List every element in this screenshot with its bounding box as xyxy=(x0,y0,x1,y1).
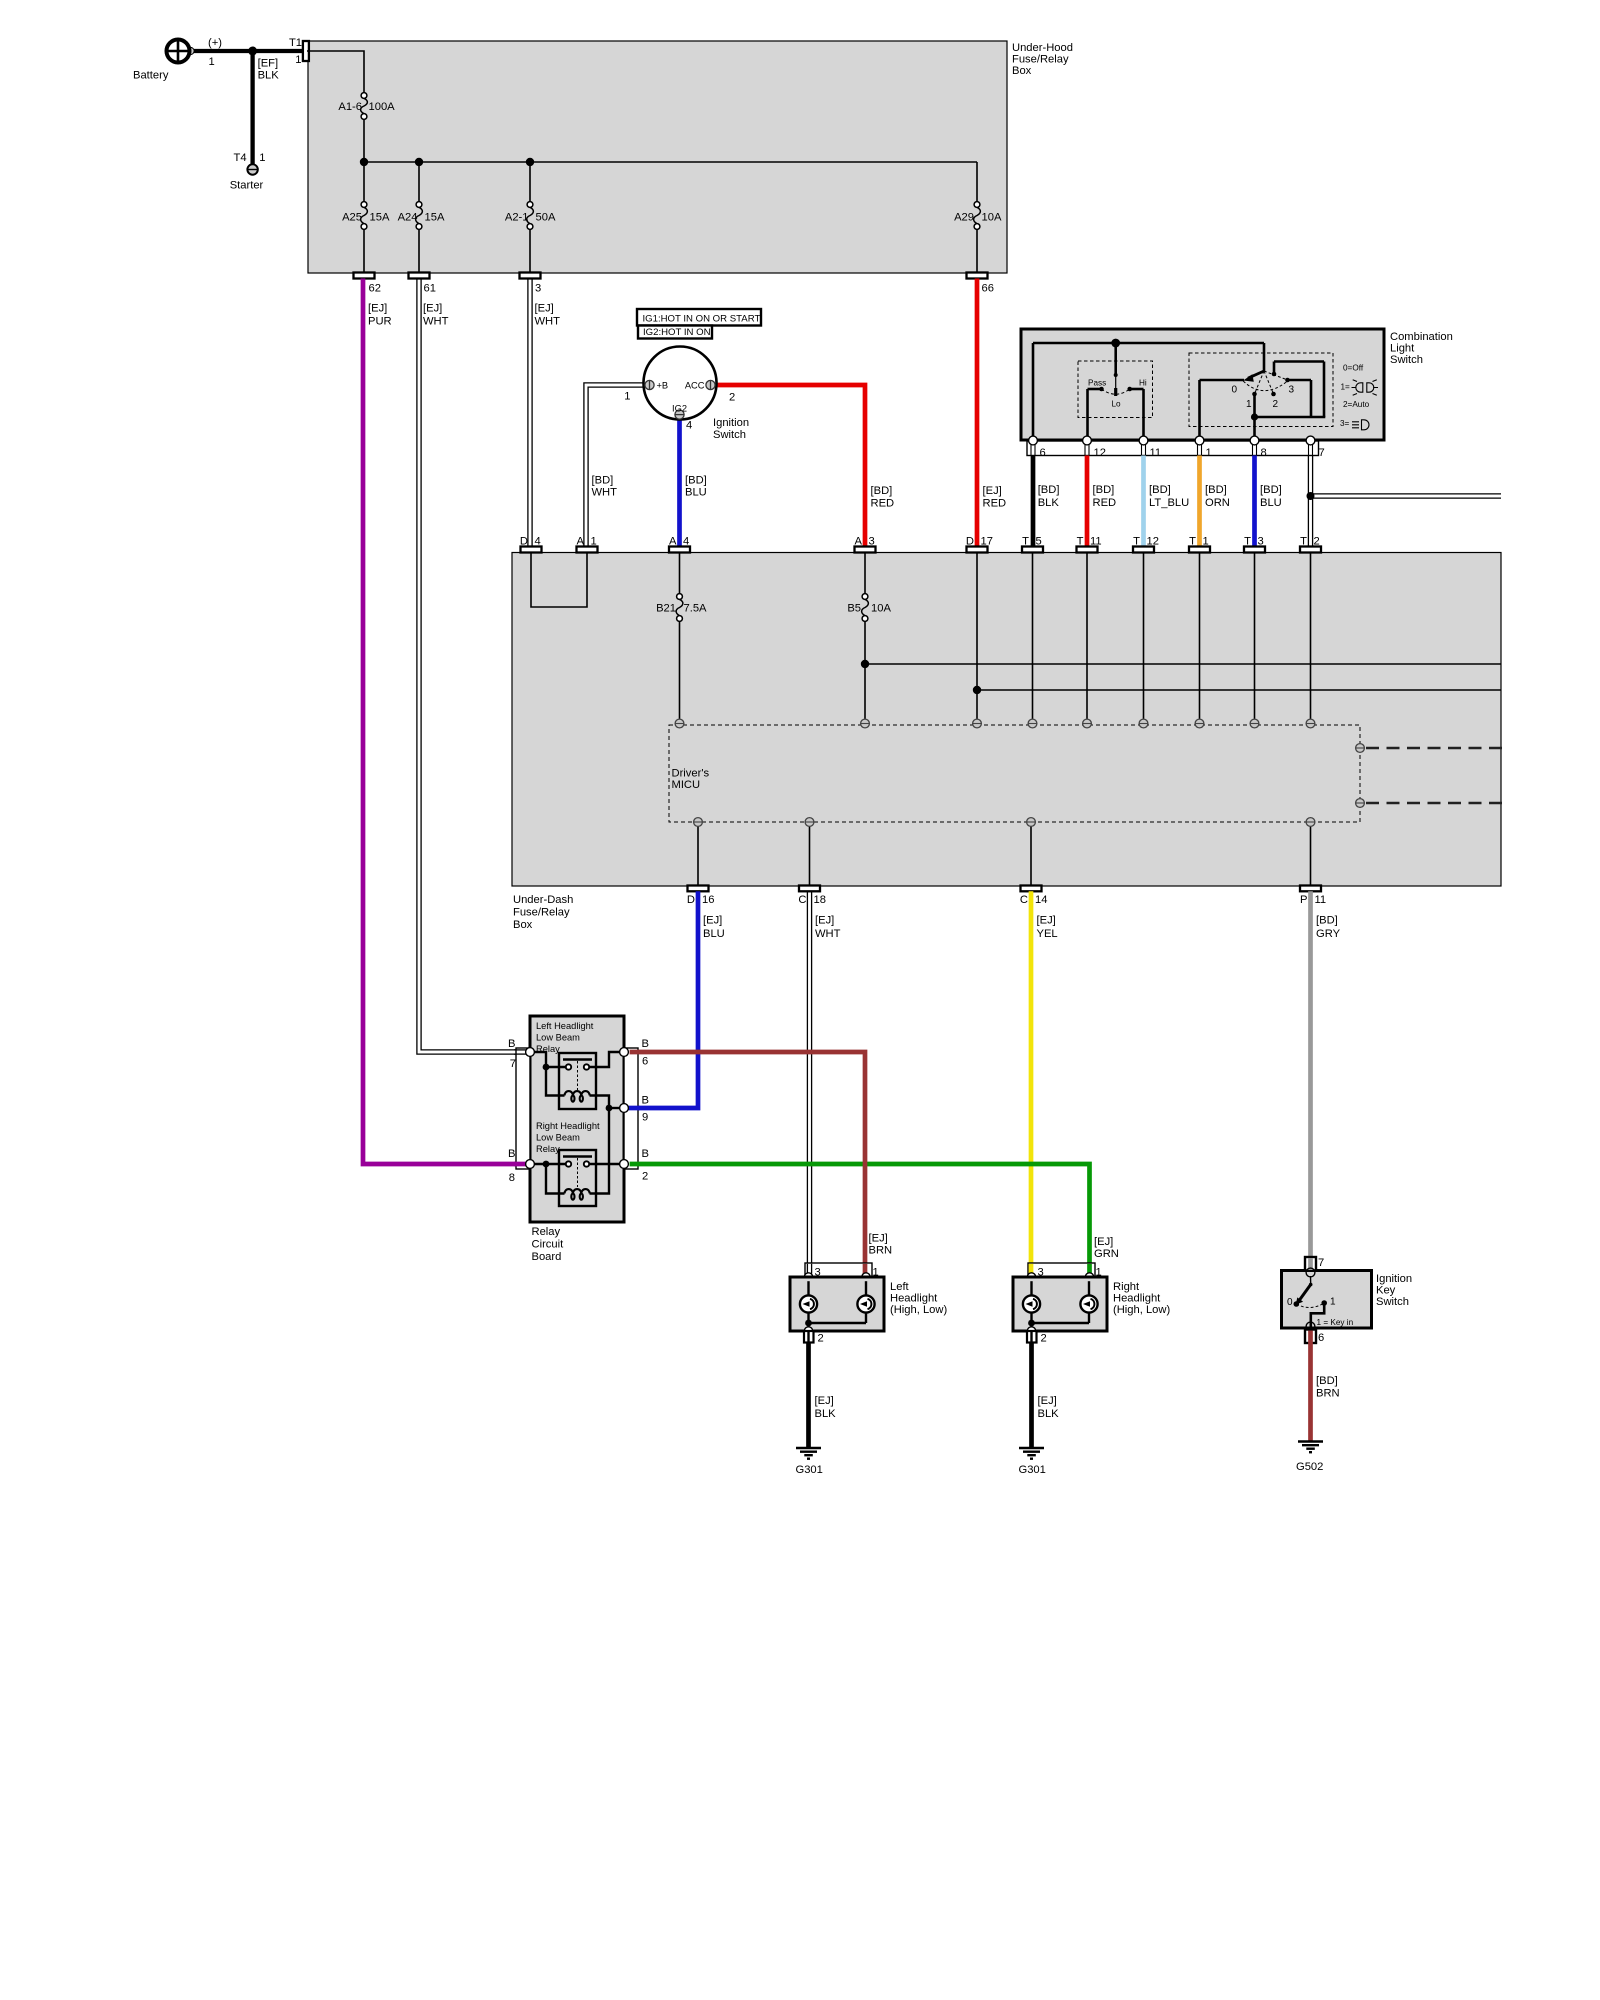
svg-text:3: 3 xyxy=(535,283,541,295)
svg-text:2: 2 xyxy=(729,392,735,404)
svg-text:1=: 1= xyxy=(1341,383,1351,392)
svg-text:8: 8 xyxy=(1261,447,1267,459)
svg-text:T: T xyxy=(1133,536,1140,548)
svg-text:WHT: WHT xyxy=(592,486,618,498)
svg-text:LT_BLU: LT_BLU xyxy=(1149,497,1189,509)
svg-text:A: A xyxy=(855,536,863,548)
svg-text:Left: Left xyxy=(890,1281,910,1293)
svg-text:[EJ]: [EJ] xyxy=(815,915,834,927)
svg-text:YEL: YEL xyxy=(1037,928,1058,940)
svg-text:IG2: IG2 xyxy=(672,404,687,414)
svg-text:Under-Dash: Under-Dash xyxy=(513,894,573,906)
svg-text:T: T xyxy=(1022,536,1029,548)
svg-text:[EJ]: [EJ] xyxy=(368,303,387,315)
svg-text:A24: A24 xyxy=(398,212,418,224)
svg-text:Pass: Pass xyxy=(1088,379,1106,388)
svg-text:1: 1 xyxy=(1203,536,1209,548)
svg-text:B: B xyxy=(508,1038,515,1050)
svg-text:C: C xyxy=(798,894,806,906)
svg-text:[BD]: [BD] xyxy=(1316,915,1338,927)
svg-text:Lo: Lo xyxy=(1112,400,1122,409)
svg-text:Switch: Switch xyxy=(713,429,746,441)
svg-text:[BD]: [BD] xyxy=(1149,484,1171,496)
svg-text:Relay: Relay xyxy=(536,1144,560,1154)
svg-text:T1: T1 xyxy=(289,37,302,49)
svg-text:4: 4 xyxy=(686,420,692,432)
svg-text:G502: G502 xyxy=(1296,1461,1323,1473)
svg-text:Board: Board xyxy=(532,1251,562,1263)
svg-text:62: 62 xyxy=(369,283,381,295)
svg-text:B5: B5 xyxy=(847,603,861,615)
svg-text:BLU: BLU xyxy=(685,486,707,498)
svg-text:1: 1 xyxy=(1330,1297,1336,1308)
svg-text:Combination: Combination xyxy=(1390,331,1453,343)
svg-text:T: T xyxy=(1077,536,1084,548)
svg-text:3: 3 xyxy=(1258,536,1264,548)
svg-text:0=Off: 0=Off xyxy=(1343,364,1364,373)
svg-text:6: 6 xyxy=(1040,447,1046,459)
svg-text:D: D xyxy=(966,536,974,548)
svg-text:(High, Low): (High, Low) xyxy=(890,1304,947,1316)
svg-text:A: A xyxy=(577,536,585,548)
svg-text:18: 18 xyxy=(814,894,826,906)
svg-text:BRN: BRN xyxy=(869,1245,893,1257)
svg-text:Circuit: Circuit xyxy=(532,1239,565,1251)
svg-text:WHT: WHT xyxy=(423,316,449,328)
svg-text:Headlight: Headlight xyxy=(1113,1293,1161,1305)
svg-text:[EJ]: [EJ] xyxy=(1094,1236,1113,1248)
svg-text:RED: RED xyxy=(1093,497,1117,509)
svg-text:[EJ]: [EJ] xyxy=(869,1233,888,1245)
svg-text:3=: 3= xyxy=(1340,419,1350,428)
svg-text:1: 1 xyxy=(1246,399,1252,410)
svg-text:GRN: GRN xyxy=(1094,1248,1119,1260)
svg-text:1: 1 xyxy=(624,391,630,403)
svg-text:17: 17 xyxy=(981,536,993,548)
svg-text:[EJ]: [EJ] xyxy=(535,303,554,315)
svg-text:[EJ]: [EJ] xyxy=(423,303,442,315)
svg-text:10A: 10A xyxy=(982,212,1002,224)
svg-text:0: 0 xyxy=(1287,1297,1293,1308)
svg-text:[EJ]: [EJ] xyxy=(815,1395,834,1407)
svg-text:[EJ]: [EJ] xyxy=(1037,915,1056,927)
svg-text:Headlight: Headlight xyxy=(890,1293,938,1305)
svg-text:1: 1 xyxy=(1206,447,1212,459)
svg-text:RED: RED xyxy=(983,498,1007,510)
svg-text:ACC: ACC xyxy=(685,381,705,391)
svg-text:6: 6 xyxy=(1318,1332,1324,1344)
svg-text:A1-6: A1-6 xyxy=(338,101,362,113)
svg-text:GRY: GRY xyxy=(1316,928,1341,940)
svg-text:2: 2 xyxy=(818,1333,824,1345)
svg-text:1 = Key in: 1 = Key in xyxy=(1317,1318,1354,1327)
svg-text:[BD]: [BD] xyxy=(685,475,707,487)
svg-text:6: 6 xyxy=(642,1056,648,1068)
svg-text:[BD]: [BD] xyxy=(1038,484,1060,496)
svg-text:[BD]: [BD] xyxy=(1260,484,1282,496)
svg-text:Box: Box xyxy=(1012,65,1032,77)
svg-text:Battery: Battery xyxy=(133,70,169,82)
svg-text:2: 2 xyxy=(1314,536,1320,548)
svg-text:[EJ]: [EJ] xyxy=(983,485,1002,497)
svg-text:2: 2 xyxy=(1273,399,1279,410)
svg-text:3: 3 xyxy=(1289,385,1295,396)
svg-text:BLK: BLK xyxy=(815,1408,837,1420)
svg-text:Driver's: Driver's xyxy=(672,768,710,780)
svg-text:66: 66 xyxy=(982,283,994,295)
svg-text:11: 11 xyxy=(1150,447,1162,459)
svg-text:16: 16 xyxy=(702,894,714,906)
svg-text:B: B xyxy=(642,1095,649,1107)
svg-text:MICU: MICU xyxy=(672,779,701,791)
svg-text:12: 12 xyxy=(1094,447,1106,459)
svg-text:11: 11 xyxy=(1090,536,1102,548)
svg-text:7.5A: 7.5A xyxy=(684,603,708,615)
svg-text:G301: G301 xyxy=(796,1464,823,1476)
svg-text:Ignition: Ignition xyxy=(1376,1273,1412,1285)
svg-text:B21: B21 xyxy=(656,603,676,615)
svg-text:A2-1: A2-1 xyxy=(505,212,529,224)
svg-text:BRN: BRN xyxy=(1316,1388,1340,1400)
svg-text:1: 1 xyxy=(209,56,215,68)
svg-text:Switch: Switch xyxy=(1376,1296,1409,1308)
svg-text:BLK: BLK xyxy=(1038,497,1060,509)
svg-text:8: 8 xyxy=(509,1172,515,1184)
svg-text:1: 1 xyxy=(295,54,301,66)
svg-text:[BD]: [BD] xyxy=(1093,484,1115,496)
svg-text:3: 3 xyxy=(869,536,875,548)
svg-text:Box: Box xyxy=(513,919,533,931)
svg-text:2=Auto: 2=Auto xyxy=(1343,400,1370,409)
svg-text:2: 2 xyxy=(642,1171,648,1183)
svg-text:Right: Right xyxy=(1113,1281,1140,1293)
svg-text:1: 1 xyxy=(259,152,265,164)
svg-text:Starter: Starter xyxy=(230,180,264,192)
svg-text:Hi: Hi xyxy=(1139,379,1147,388)
svg-text:[EF]: [EF] xyxy=(258,58,279,70)
svg-text:B: B xyxy=(642,1148,649,1160)
svg-text:BLU: BLU xyxy=(1260,497,1282,509)
svg-text:Fuse/Relay: Fuse/Relay xyxy=(513,907,570,919)
svg-text:P: P xyxy=(1300,894,1307,906)
svg-text:+B: +B xyxy=(657,381,669,391)
svg-text:Right Headlight: Right Headlight xyxy=(536,1121,600,1131)
svg-text:WHT: WHT xyxy=(535,316,561,328)
svg-text:7: 7 xyxy=(1319,447,1325,459)
svg-text:61: 61 xyxy=(424,283,436,295)
svg-text:4: 4 xyxy=(535,536,541,548)
svg-text:BLK: BLK xyxy=(258,70,280,82)
svg-text:Low Beam: Low Beam xyxy=(536,1033,580,1043)
svg-text:15A: 15A xyxy=(425,212,445,224)
svg-text:[BD]: [BD] xyxy=(871,485,893,497)
svg-text:7: 7 xyxy=(1318,1257,1324,1269)
svg-text:[BD]: [BD] xyxy=(592,475,614,487)
svg-text:Fuse/Relay: Fuse/Relay xyxy=(1012,54,1069,66)
svg-text:50A: 50A xyxy=(536,212,556,224)
svg-text:D: D xyxy=(520,536,528,548)
svg-text:11: 11 xyxy=(1315,894,1327,906)
svg-text:2: 2 xyxy=(1041,1333,1047,1345)
svg-text:Switch: Switch xyxy=(1390,354,1423,366)
svg-text:Light: Light xyxy=(1390,343,1415,355)
svg-text:T: T xyxy=(1244,536,1251,548)
svg-text:4: 4 xyxy=(683,536,689,548)
svg-text:Key: Key xyxy=(1376,1285,1396,1297)
svg-text:B: B xyxy=(642,1038,649,1050)
svg-text:RED: RED xyxy=(871,498,895,510)
svg-text:IG1:HOT IN ON OR START: IG1:HOT IN ON OR START xyxy=(643,314,761,325)
svg-text:D: D xyxy=(687,894,695,906)
svg-text:A25: A25 xyxy=(342,212,362,224)
svg-text:Relay: Relay xyxy=(532,1226,561,1238)
svg-text:[BD]: [BD] xyxy=(1205,484,1227,496)
svg-text:T4: T4 xyxy=(234,152,247,164)
svg-text:14: 14 xyxy=(1035,894,1047,906)
svg-text:G301: G301 xyxy=(1019,1464,1046,1476)
svg-text:B: B xyxy=(508,1148,515,1160)
svg-text:ORN: ORN xyxy=(1205,497,1230,509)
svg-text:1: 1 xyxy=(591,536,597,548)
svg-text:7: 7 xyxy=(510,1058,516,1070)
svg-text:WHT: WHT xyxy=(815,928,841,940)
svg-text:A29: A29 xyxy=(954,212,974,224)
svg-text:T: T xyxy=(1189,536,1196,548)
svg-text:0: 0 xyxy=(1231,385,1237,396)
svg-text:C: C xyxy=(1020,894,1028,906)
svg-text:100A: 100A xyxy=(369,101,396,113)
svg-text:Low Beam: Low Beam xyxy=(536,1133,580,1143)
svg-text:9: 9 xyxy=(642,1112,648,1124)
svg-text:[EJ]: [EJ] xyxy=(703,915,722,927)
svg-text:IG2:HOT IN ON: IG2:HOT IN ON xyxy=(643,327,711,338)
svg-text:(High, Low): (High, Low) xyxy=(1113,1304,1170,1316)
svg-text:15A: 15A xyxy=(370,212,390,224)
svg-text:[BD]: [BD] xyxy=(1316,1375,1338,1387)
svg-text:Left Headlight: Left Headlight xyxy=(536,1021,594,1031)
svg-text:(+): (+) xyxy=(208,37,222,49)
svg-text:A: A xyxy=(669,536,677,548)
svg-text:10A: 10A xyxy=(871,603,891,615)
svg-text:BLU: BLU xyxy=(703,928,725,940)
svg-text:T: T xyxy=(1300,536,1307,548)
svg-text:PUR: PUR xyxy=(368,316,392,328)
svg-text:[EJ]: [EJ] xyxy=(1038,1395,1057,1407)
svg-text:Ignition: Ignition xyxy=(713,417,749,429)
svg-text:12: 12 xyxy=(1147,536,1159,548)
svg-text:5: 5 xyxy=(1036,536,1042,548)
svg-text:BLK: BLK xyxy=(1038,1408,1060,1420)
svg-text:Under-Hood: Under-Hood xyxy=(1012,42,1073,54)
